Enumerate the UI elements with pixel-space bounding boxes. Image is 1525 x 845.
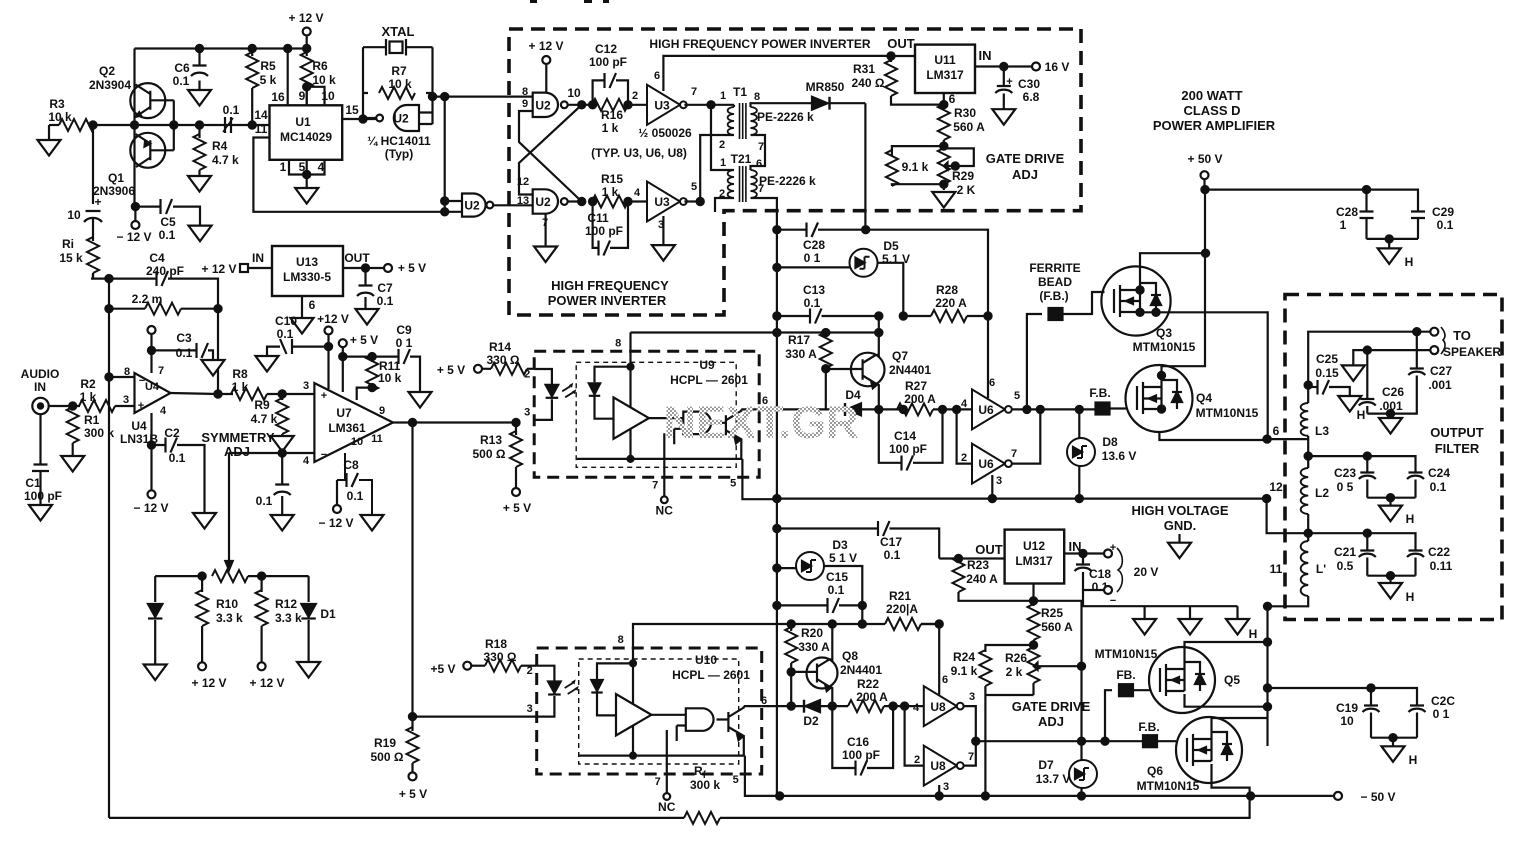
svg-text:R15: R15	[601, 172, 623, 186]
ferrite bead (Q5 gate)	[1101, 668, 1150, 745]
wire C28 to R28 right elbow	[866, 230, 988, 316]
svg-text:9.1 k: 9.1 k	[951, 664, 978, 678]
svg-text:LM317: LM317	[926, 68, 964, 82]
svg-text:10: 10	[567, 86, 581, 100]
+12V square terminal into U13	[201, 262, 272, 276]
zener D3 5.1V	[773, 538, 862, 605]
comparator U7 LM361	[303, 380, 393, 467]
-12V terminal under C8	[318, 480, 353, 530]
svg-text:IN: IN	[252, 251, 264, 265]
resistor Rf 300k	[684, 764, 720, 824]
ferrite bead (Q4 gate)	[1089, 386, 1126, 415]
svg-text:−: −	[321, 449, 327, 461]
capacitor C20	[1409, 694, 1456, 738]
resistor R1 300k	[67, 402, 115, 456]
svg-text:R21: R21	[889, 589, 911, 603]
svg-text:14: 14	[254, 108, 268, 122]
svg-text:13: 13	[517, 195, 529, 207]
svg-text:C18: C18	[1089, 567, 1111, 581]
svg-text:4: 4	[160, 405, 167, 417]
resistor R7	[363, 64, 433, 99]
svg-text:C21: C21	[1334, 545, 1356, 559]
capacitor C16 100pF	[832, 706, 893, 775]
svg-text:D2: D2	[803, 714, 819, 728]
svg-text:R24: R24	[953, 650, 975, 664]
svg-text:2 k: 2 k	[1006, 665, 1023, 679]
capacitor C28 (0.1)	[773, 223, 869, 266]
svg-text:U6: U6	[978, 457, 994, 471]
node 11 riser	[1264, 562, 1283, 642]
svg-text:D8: D8	[1102, 435, 1118, 449]
U4 top terminal and C3	[148, 326, 214, 373]
svg-text:FB.: FB.	[1116, 668, 1135, 682]
buffer U8 bottom	[905, 706, 974, 793]
svg-text:T21: T21	[731, 152, 752, 166]
svg-text:Q7: Q7	[892, 349, 908, 363]
U13 OUT wire to +5V	[343, 261, 426, 275]
svg-text:4: 4	[318, 160, 325, 174]
svg-text:C15: C15	[826, 570, 848, 584]
svg-text:SYMMETRY: SYMMETRY	[201, 430, 275, 445]
diode D2	[803, 700, 848, 728]
wire xtal right vertical	[431, 47, 433, 124]
svg-text:200 A: 200 A	[904, 392, 936, 406]
transformer T21	[719, 152, 816, 202]
svg-text:− 12 V: − 12 V	[116, 230, 151, 244]
top crop marks	[530, 0, 537, 3]
+5V terminal / resistor R14	[437, 340, 534, 377]
capacitor C30	[995, 67, 1040, 110]
svg-text:3: 3	[303, 380, 309, 392]
svg-text:LM317: LM317	[1015, 554, 1053, 568]
svg-text:Q3: Q3	[1156, 326, 1172, 340]
svg-text:330 Ω: 330 Ω	[484, 650, 517, 664]
svg-text:HCPL — 2601: HCPL — 2601	[672, 668, 750, 682]
resistor R9 4.7k	[251, 390, 289, 436]
wire T21 primary top from node	[711, 105, 734, 170]
resistor R23 240A	[953, 556, 1034, 601]
svg-text:1: 1	[720, 157, 726, 169]
transistor Q1 2N3906	[93, 133, 174, 198]
svg-text:TO: TO	[1453, 328, 1471, 343]
svg-text:OUTPUT: OUTPUT	[1430, 425, 1484, 440]
+12V terminal under R10	[191, 662, 226, 690]
svg-text:C19: C19	[1336, 701, 1358, 715]
svg-text:1: 1	[280, 160, 287, 174]
svg-text:8: 8	[754, 91, 760, 103]
svg-text:R30: R30	[954, 106, 976, 120]
svg-text:300 k: 300 k	[690, 778, 720, 792]
capacitor C22 0.11	[1407, 545, 1453, 576]
svg-text:7: 7	[758, 183, 764, 195]
capacitor C14 100pF	[879, 409, 943, 470]
svg-text:GATE DRIVE: GATE DRIVE	[986, 151, 1065, 166]
svg-text:0.11: 0.11	[1430, 559, 1453, 573]
node 12 entry wire	[1267, 499, 1309, 534]
capacitor C29 (0.1) top right	[1411, 205, 1454, 239]
capacitor C26 .001	[1359, 385, 1405, 418]
buffer U6 top	[961, 377, 1020, 429]
svg-text:U12: U12	[1023, 539, 1045, 553]
ground under C2	[193, 513, 216, 529]
svg-text:200 WATT: 200 WATT	[1181, 88, 1242, 103]
wire top speaker line	[1308, 328, 1431, 385]
svg-text:0.1: 0.1	[347, 489, 364, 503]
svg-text:U7: U7	[336, 406, 352, 420]
transistor Q8 2N4401	[791, 624, 882, 706]
wire Q7 collector tie	[875, 316, 882, 336]
resistor 2.2m feedback	[109, 292, 218, 315]
wire bottom feedback line	[109, 817, 1251, 819]
transistor Q7 2N4401	[826, 333, 932, 410]
wire U3 bottom output	[684, 198, 703, 205]
wire latch top output	[582, 104, 593, 106]
U4 pin4 wire / -12V terminal	[133, 413, 168, 515]
svg-text:6: 6	[654, 70, 660, 82]
resistor R4	[194, 125, 240, 176]
resistor R13 500ohm	[473, 419, 522, 488]
svg-text:6.8: 6.8	[1023, 90, 1040, 104]
ground under C28/C29	[1367, 235, 1419, 269]
svg-text:9: 9	[299, 89, 306, 103]
svg-text:OUT: OUT	[344, 251, 370, 265]
svg-text:9: 9	[379, 405, 385, 417]
potentiometer R26 2k	[1005, 641, 1082, 695]
resistor R24 9.1k	[951, 645, 1034, 796]
svg-text:5.1 V: 5.1 V	[882, 252, 910, 266]
U11 pin6 wire	[940, 92, 955, 108]
svg-text:5: 5	[299, 160, 306, 174]
svg-text:10 k: 10 k	[378, 371, 402, 385]
diode D1	[301, 576, 336, 662]
svg-text:+ 5 V: + 5 V	[437, 363, 465, 377]
svg-text:1 k: 1 k	[602, 185, 619, 199]
svg-text:240 Ω: 240 Ω	[852, 76, 885, 90]
wire inverting input from feedback node	[109, 376, 135, 378]
svg-text:5 k: 5 k	[260, 73, 277, 87]
svg-text:R1: R1	[84, 413, 100, 427]
-50V line	[776, 790, 1395, 804]
svg-text:3: 3	[996, 475, 1002, 487]
zener D5 5.1V	[773, 239, 910, 316]
svg-text:D7: D7	[1038, 758, 1054, 772]
gate U2 latch top	[522, 86, 581, 117]
svg-text:R5: R5	[260, 59, 276, 73]
resistor R15	[589, 172, 632, 208]
+12V terminal top-left	[288, 11, 323, 49]
svg-text:560 A: 560 A	[953, 120, 985, 134]
IC U1 MC14029	[270, 105, 343, 160]
resistor 9.1k branch	[886, 143, 948, 187]
ferrite bead (Q3 gate)	[1027, 261, 1105, 409]
svg-text:6: 6	[949, 92, 956, 106]
MOSFET Q6 MTM10N15	[1137, 717, 1242, 793]
wire L2/L1 junction row	[1305, 530, 1416, 550]
gate U2 oscillator (left-facing)	[363, 105, 433, 161]
svg-text:13.6 V: 13.6 V	[1102, 449, 1137, 463]
capacitor C1	[24, 414, 62, 505]
wire U8 top output	[964, 706, 980, 745]
svg-text:C4: C4	[149, 251, 165, 265]
wire T21 primary bottom stub	[715, 198, 734, 212]
+5V terminal / resistor R18	[430, 637, 536, 676]
svg-text:C22: C22	[1428, 545, 1450, 559]
capacitor C2	[152, 426, 205, 513]
capacitor C10	[267, 314, 329, 356]
wire U6 bottom pin3 to gnd line	[989, 475, 996, 502]
wire R3 node down-column	[92, 125, 94, 204]
svg-text:10 k: 10 k	[48, 110, 72, 124]
svg-text:F.B.: F.B.	[1138, 720, 1159, 734]
svg-text:0.1: 0.1	[277, 327, 294, 341]
svg-text:U8: U8	[930, 759, 946, 773]
wire U6 top output	[1012, 406, 1101, 413]
AUDIO IN connector	[21, 367, 80, 414]
svg-text:− 12 V: − 12 V	[318, 516, 353, 530]
svg-text:R9: R9	[254, 398, 270, 412]
svg-text:4.7 k: 4.7 k	[251, 412, 278, 426]
svg-text:+ 5 V: + 5 V	[350, 333, 378, 347]
U1 pin11 wire	[253, 122, 462, 212]
svg-text:16: 16	[271, 90, 285, 104]
svg-text:ADJ: ADJ	[1038, 714, 1064, 729]
svg-text:R12: R12	[275, 597, 297, 611]
svg-text:+12 V: +12 V	[317, 312, 349, 326]
resistor R27 200A	[897, 379, 972, 415]
svg-text:0.1: 0.1	[173, 74, 190, 88]
svg-text:2N3904: 2N3904	[89, 78, 131, 92]
svg-text:3.3 k: 3.3 k	[216, 611, 243, 625]
resistor R6	[301, 49, 336, 106]
resistor R8	[231, 367, 314, 400]
svg-text:0.15: 0.15	[1315, 366, 1339, 380]
resistor R30	[938, 104, 985, 146]
svg-text:H: H	[1357, 408, 1366, 422]
svg-text:11: 11	[255, 122, 268, 136]
dashed box OUTPUT FILTER	[1285, 295, 1502, 620]
svg-text:R29: R29	[952, 169, 974, 183]
svg-text:F.B.: F.B.	[1089, 386, 1110, 400]
svg-text:0.1: 0.1	[1430, 480, 1447, 494]
+5V terminal above U7	[339, 333, 378, 392]
svg-text:H: H	[1409, 753, 1418, 767]
svg-text:R26: R26	[1005, 651, 1027, 665]
svg-text:C6: C6	[174, 61, 190, 75]
svg-text:11: 11	[1270, 562, 1283, 576]
svg-text:100 pF: 100 pF	[842, 748, 880, 762]
svg-text:R18: R18	[485, 637, 507, 651]
svg-text:C16: C16	[847, 735, 869, 749]
wire U8 bottom pin3 to -50 line	[938, 785, 940, 796]
inductor L2	[1301, 456, 1330, 533]
svg-text:NEXT.GR: NEXT.GR	[663, 397, 858, 448]
capacitor C4 240pF line	[91, 251, 218, 309]
gate U2 inverter (lower-left)	[462, 194, 533, 217]
svg-text:H: H	[1249, 627, 1258, 641]
svg-text:+ 12 V: + 12 V	[288, 11, 323, 25]
svg-text:10: 10	[1340, 714, 1354, 728]
svg-text:U11: U11	[934, 53, 956, 67]
svg-text:2: 2	[719, 139, 725, 151]
svg-text:H: H	[1406, 590, 1415, 604]
svg-text:HIGH FREQUENCY POWER INVERTER: HIGH FREQUENCY POWER INVERTER	[649, 37, 870, 51]
svg-text:.001: .001	[1379, 399, 1403, 413]
inductor L3	[1301, 385, 1330, 456]
svg-text:0.1: 0.1	[169, 451, 186, 465]
U1 pins 1 5 4 jog	[280, 160, 325, 188]
capacitor 0.1 coupling	[223, 103, 240, 133]
svg-text:500 Ω: 500 Ω	[473, 447, 506, 461]
zener D7 13.7V	[1036, 666, 1097, 796]
svg-text:0.1: 0.1	[828, 583, 845, 597]
svg-text:XTAL: XTAL	[382, 24, 415, 39]
svg-text:3: 3	[943, 781, 949, 793]
ground under C10	[256, 356, 279, 372]
svg-text:0.1: 0.1	[223, 103, 240, 117]
svg-text:MTM10N15: MTM10N15	[1196, 406, 1259, 420]
wire second speaker line	[1367, 350, 1430, 398]
svg-text:C1: C1	[25, 476, 41, 490]
svg-text:0.1: 0.1	[159, 228, 176, 242]
svg-text:9: 9	[522, 98, 528, 110]
wire U7 out vertical to R19	[409, 419, 416, 717]
ground under R4	[188, 176, 211, 192]
svg-text:+ 12 V: + 12 V	[191, 676, 226, 690]
svg-text:R2: R2	[80, 377, 96, 391]
svg-text:C11: C11	[587, 211, 609, 225]
HIGH VOLTAGE GND	[1131, 503, 1228, 558]
triple ground row	[1133, 619, 1257, 641]
wire OUT node	[887, 36, 915, 60]
svg-text:C28: C28	[803, 238, 825, 252]
svg-text:9.1 k: 9.1 k	[902, 160, 929, 174]
ground under C9	[409, 392, 432, 408]
wire Q5 drain top	[1185, 642, 1268, 657]
wire U12 adj pin	[1030, 584, 1037, 605]
svg-text:U8: U8	[930, 700, 946, 714]
ground under C8	[361, 515, 384, 531]
svg-text:4: 4	[634, 187, 641, 199]
svg-text:R14: R14	[489, 340, 511, 354]
wire U6 bottom output up-tie	[1012, 409, 1040, 463]
resistor Ri 15k	[59, 237, 99, 279]
svg-text:HIGH FREQUENCY: HIGH FREQUENCY	[551, 278, 669, 293]
svg-text:0 1: 0 1	[804, 251, 821, 265]
svg-text:20 V: 20 V	[1134, 565, 1159, 579]
svg-text:0 1: 0 1	[1433, 707, 1450, 721]
ground under C26/C27	[1379, 418, 1402, 434]
svg-text:0.5: 0.5	[1337, 559, 1354, 573]
svg-text:C9: C9	[396, 323, 412, 337]
node A vertical (feedback column)	[105, 275, 112, 818]
svg-text:7: 7	[158, 365, 164, 377]
svg-text:LM361: LM361	[328, 421, 366, 435]
200 WATT CLASS D label	[1153, 88, 1276, 133]
svg-text:R25: R25	[1041, 606, 1063, 620]
U4 output wire	[171, 393, 234, 394]
wire Q3 source line to node6	[1136, 312, 1268, 439]
svg-text:POWER INVERTER: POWER INVERTER	[548, 293, 667, 308]
svg-text:H: H	[1405, 255, 1414, 269]
svg-text:R22: R22	[857, 677, 879, 691]
svg-text:(TYP. U3, U6, U8): (TYP. U3, U6, U8)	[591, 146, 687, 160]
wire MR850 down to C28 line	[864, 103, 866, 230]
optocoupler U10 HCPL-2601	[527, 629, 780, 814]
svg-text:LM330-5: LM330-5	[283, 270, 331, 284]
capacitor C9	[372, 323, 420, 392]
resistor R19 500ohm	[371, 713, 537, 773]
svg-text:GATE DRIVE: GATE DRIVE	[1012, 699, 1091, 714]
svg-text:R4: R4	[212, 139, 228, 153]
MOSFET Q4 MTM10N15	[1126, 365, 1259, 432]
resistor R12 3.3k	[256, 576, 302, 662]
svg-text:T1: T1	[733, 85, 747, 99]
ground under C1	[29, 505, 52, 521]
svg-text:2: 2	[914, 754, 920, 766]
svg-text:+ 5 V: + 5 V	[398, 261, 426, 275]
wire pin8 supply line U9	[631, 329, 879, 336]
svg-text:+ 50 V: + 50 V	[1187, 152, 1222, 166]
svg-text:C30: C30	[1018, 77, 1040, 91]
svg-text:OUT: OUT	[887, 36, 915, 51]
wire left vertical (Q2/Q1 column)	[133, 49, 135, 207]
svg-text:100 pF: 100 pF	[589, 55, 627, 69]
ground under C23/C24	[1367, 494, 1415, 526]
capacitor C11	[585, 202, 628, 256]
svg-text:330 A: 330 A	[798, 640, 830, 654]
svg-text:0 1: 0 1	[396, 336, 413, 350]
svg-text:R31: R31	[853, 62, 875, 76]
svg-text:R3: R3	[49, 97, 65, 111]
diode left branch	[148, 576, 162, 664]
wire xtal left vertical	[362, 47, 364, 119]
svg-text:2 K: 2 K	[957, 183, 976, 197]
-12V terminal under Q1	[116, 207, 151, 244]
svg-text:U2: U2	[535, 195, 551, 209]
svg-text:+ 5 V: + 5 V	[399, 787, 427, 801]
resistor R16	[589, 99, 632, 135]
svg-text:13.7 V: 13.7 V	[1036, 772, 1071, 786]
svg-text:C3: C3	[176, 331, 192, 345]
zener D8 13.6V	[1067, 409, 1136, 498]
svg-text:POWER AMPLIFIER: POWER AMPLIFIER	[1153, 118, 1276, 133]
wire U12 IN / 20V terminals / C18	[1064, 542, 1158, 607]
ground under R29	[932, 181, 955, 208]
resistor R22 200A	[848, 677, 924, 712]
svg-text:220 A: 220 A	[935, 296, 967, 310]
svg-text:C8: C8	[343, 458, 359, 472]
potentiometer R29 2K	[938, 146, 976, 197]
svg-text:7: 7	[691, 86, 697, 98]
svg-text:MTM10N15: MTM10N15	[1095, 647, 1158, 661]
resistor R17 330A	[785, 332, 832, 409]
svg-text:+ 12 V: + 12 V	[528, 39, 563, 53]
svg-text:U2: U2	[393, 112, 409, 126]
resistor R28 220A	[875, 283, 991, 322]
svg-text:Ri: Ri	[62, 237, 74, 251]
capacitor C25 0.15	[1305, 352, 1350, 396]
svg-text:FERRITE: FERRITE	[1029, 261, 1080, 275]
capacitor C24 0.1	[1407, 466, 1450, 498]
svg-text:HIGH VOLTAGE: HIGH VOLTAGE	[1131, 503, 1228, 518]
svg-text:D5: D5	[883, 239, 899, 253]
ground stub near C26 top	[1342, 347, 1371, 381]
transformer T1	[719, 85, 814, 153]
svg-text:R6: R6	[312, 59, 328, 73]
svg-text:− 50 V: − 50 V	[1360, 790, 1395, 804]
svg-text:0 5: 0 5	[1337, 480, 1354, 494]
wire +12V bus	[135, 47, 307, 49]
